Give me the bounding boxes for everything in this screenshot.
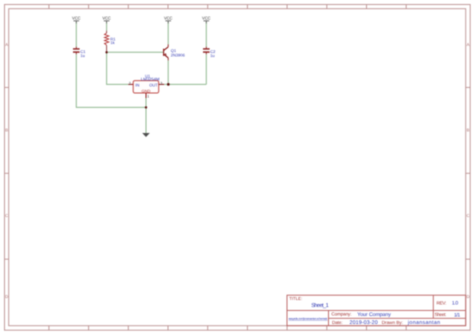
svg-text:2: 2: [129, 81, 131, 85]
svg-text:B: B: [5, 127, 8, 132]
svg-text:VCC: VCC: [102, 16, 111, 21]
svg-text:Sheet:: Sheet:: [435, 312, 447, 317]
svg-text:1/1: 1/1: [454, 312, 460, 318]
svg-text:VCC: VCC: [202, 16, 211, 21]
svg-text:TITLE:: TITLE:: [289, 296, 302, 301]
svg-text:1u: 1u: [80, 53, 84, 58]
svg-text:2N3906: 2N3906: [171, 52, 186, 57]
svg-text:D: D: [466, 294, 469, 299]
svg-text:jonansantan: jonansantan: [407, 320, 440, 326]
svg-text:LM3254M: LM3254M: [141, 76, 160, 81]
svg-text:OUT: OUT: [149, 82, 158, 87]
svg-text:A: A: [5, 42, 8, 47]
svg-text:Drawn By:: Drawn By:: [382, 320, 403, 325]
svg-text:C: C: [466, 213, 469, 218]
svg-text:easyeda.com/jonansantan.schema: easyeda.com/jonansantan.schematic: [289, 317, 329, 320]
svg-text:VCC: VCC: [72, 16, 81, 21]
svg-text:1.0: 1.0: [452, 301, 458, 307]
svg-text:Your Company: Your Company: [357, 312, 391, 318]
svg-text:VCC: VCC: [164, 16, 173, 21]
svg-text:GND: GND: [142, 88, 151, 93]
svg-text:REV:: REV:: [437, 301, 447, 306]
svg-text:3: 3: [160, 81, 162, 85]
svg-text:C: C: [5, 213, 8, 218]
svg-text:1u: 1u: [210, 53, 214, 58]
svg-text:Date:: Date:: [332, 320, 343, 325]
svg-text:2019-03-20: 2019-03-20: [350, 320, 378, 326]
svg-text:Sheet_1: Sheet_1: [311, 302, 329, 309]
svg-text:1: 1: [147, 95, 149, 99]
svg-text:Company:: Company:: [331, 312, 351, 317]
svg-text:IN: IN: [135, 82, 139, 87]
svg-text:B: B: [467, 127, 470, 132]
svg-text:D: D: [5, 294, 8, 299]
svg-text:1k: 1k: [110, 40, 114, 45]
svg-text:A: A: [467, 42, 470, 47]
